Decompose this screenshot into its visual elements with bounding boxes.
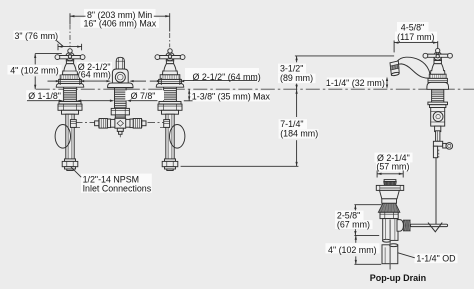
svg-text:(67 mm): (67 mm) [337, 220, 370, 230]
svg-text:4-5/8": 4-5/8" [401, 22, 424, 32]
svg-text:4" (102 mm): 4" (102 mm) [10, 66, 59, 76]
svg-text:1-1/4" OD: 1-1/4" OD [416, 254, 455, 264]
svg-text:1-3/8" (35 mm) Max: 1-3/8" (35 mm) Max [192, 92, 271, 102]
svg-text:(64 mm): (64 mm) [78, 70, 111, 80]
svg-text:1-1/4" (32 mm): 1-1/4" (32 mm) [326, 78, 385, 88]
svg-text:Ø 7/8": Ø 7/8" [131, 91, 156, 101]
svg-text:16" (406 mm) Max: 16" (406 mm) Max [83, 19, 156, 29]
svg-text:4" (102 mm): 4" (102 mm) [328, 245, 377, 255]
svg-text:Ø 2-1/2" (64 mm): Ø 2-1/2" (64 mm) [193, 72, 261, 82]
svg-text:3" (76 mm): 3" (76 mm) [15, 31, 59, 41]
svg-text:(184 mm): (184 mm) [280, 129, 318, 139]
svg-text:(117 mm): (117 mm) [397, 32, 434, 42]
svg-text:Ø 1-1/8": Ø 1-1/8" [28, 91, 61, 101]
svg-text:(57 mm): (57 mm) [376, 162, 409, 172]
svg-text:(89 mm): (89 mm) [280, 73, 313, 83]
svg-text:Inlet Connections: Inlet Connections [83, 183, 152, 193]
svg-text:Pop-up Drain: Pop-up Drain [370, 273, 427, 283]
